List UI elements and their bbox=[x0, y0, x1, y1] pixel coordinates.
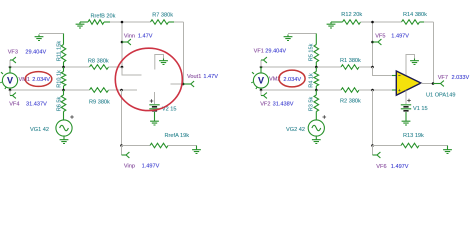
node U1 inverting input junction bbox=[371, 66, 374, 69]
svg-text:1.47V: 1.47V bbox=[138, 34, 153, 40]
ground (RrefA right) bbox=[196, 146, 198, 148]
node voltmeter top junction bbox=[9, 66, 12, 69]
wire RrefA row right bbox=[168, 145, 197, 147]
svg-text:Vout1: Vout1 bbox=[187, 74, 201, 80]
ground (op-amp V+) bbox=[410, 59, 419, 65]
node RrefA junction bbox=[120, 144, 123, 147]
wire top rail to R7 bbox=[104, 21, 110, 23]
svg-text:29.404V: 29.404V bbox=[25, 49, 46, 55]
svg-text:R4 1k: R4 1k bbox=[308, 73, 314, 88]
resistor R13 19k bbox=[401, 143, 419, 148]
svg-text:R2 380k: R2 380k bbox=[340, 99, 361, 105]
svg-text:1.497V: 1.497V bbox=[142, 163, 160, 169]
svg-text:1.47V: 1.47V bbox=[203, 74, 218, 80]
wire top rail to R14 bbox=[361, 21, 402, 23]
node R5/R4/R1 junction bbox=[315, 66, 318, 69]
svg-text:VG1 42: VG1 42 bbox=[30, 127, 49, 133]
wire op-amp output bbox=[421, 83, 433, 85]
svg-text:VF1: VF1 bbox=[254, 48, 264, 54]
resistor R2 380k bbox=[341, 88, 359, 93]
resistor R5 15k bbox=[315, 34, 317, 45]
resistor RrefA 19k bbox=[150, 143, 168, 148]
resistor R14 380k bbox=[402, 20, 420, 25]
wire feedback vertical bbox=[433, 22, 435, 84]
svg-text:1.497V: 1.497V bbox=[391, 34, 409, 40]
node U1 non-inverting input junction bbox=[371, 89, 374, 92]
svg-text:VM1: VM1 bbox=[19, 77, 31, 83]
node voltmeter bottom junction bbox=[9, 89, 12, 92]
node inverting input junction bbox=[121, 66, 124, 69]
wire rail1 left bbox=[261, 66, 341, 68]
probe Vinn bbox=[121, 41, 124, 44]
wire R13 row left bbox=[373, 145, 402, 147]
svg-text:2.033V: 2.033V bbox=[452, 75, 470, 81]
resistor R1 380k bbox=[341, 65, 359, 70]
wire feedback vertical bbox=[183, 22, 185, 84]
wire rail2 right bbox=[359, 89, 373, 91]
svg-text:V: V bbox=[7, 76, 13, 86]
wire ghost op-amp plus stub bbox=[122, 89, 138, 91]
wire VF5 vertical bbox=[372, 22, 374, 67]
ground (R13 right) bbox=[447, 146, 449, 148]
resistor R4 1k bbox=[314, 72, 319, 87]
svg-text:R1 380k: R1 380k bbox=[340, 58, 361, 64]
wire RrefA row left bbox=[122, 145, 151, 147]
ground (VG2) bbox=[312, 138, 321, 144]
ground (ghost op-amp V+) bbox=[159, 59, 168, 65]
svg-text:R9 380k: R9 380k bbox=[89, 100, 110, 106]
wire R13 row right bbox=[419, 145, 448, 147]
svg-text:R13 19k: R13 19k bbox=[403, 133, 424, 139]
wire op-amp minus input step bbox=[373, 67, 393, 76]
svg-text:R10 1k: R10 1k bbox=[57, 70, 63, 88]
wire ghost op-amp V+ bracket bbox=[155, 55, 164, 70]
node non-inverting input junction bbox=[120, 89, 123, 92]
probe VF3 bbox=[9, 60, 11, 67]
wire ghost op-amp V- stub bbox=[154, 92, 156, 104]
node R4/R3/R2 junction bbox=[315, 89, 318, 92]
node R10/R6/R9 junction bbox=[62, 89, 65, 92]
highlight ellipse (VM2 reading) bbox=[279, 70, 305, 87]
ground (R5 top wire) bbox=[284, 35, 293, 41]
svg-text:R7 380k: R7 380k bbox=[152, 12, 173, 18]
svg-text:VF5: VF5 bbox=[375, 34, 385, 40]
svg-text:R3 5k: R3 5k bbox=[308, 96, 314, 111]
probe VF6 bbox=[372, 146, 374, 156]
svg-text:31.438V: 31.438V bbox=[273, 101, 294, 107]
svg-text:Vinn: Vinn bbox=[124, 34, 135, 40]
svg-text:Vinp: Vinp bbox=[124, 163, 135, 169]
node VM2 top junction bbox=[260, 66, 263, 69]
wire op-amp V+ bracket bbox=[406, 55, 415, 76]
resistor R12 20k bbox=[343, 20, 361, 25]
svg-text:VF3: VF3 bbox=[8, 49, 18, 55]
ground (VG1) bbox=[60, 138, 69, 144]
svg-text:RrefA 19k: RrefA 19k bbox=[165, 133, 190, 139]
resistor R9 380k bbox=[90, 88, 109, 93]
svg-text:31.437V: 31.437V bbox=[26, 102, 47, 108]
ground (RrefB left) bbox=[76, 22, 85, 28]
ground (R12 left) bbox=[327, 22, 336, 28]
node VF7 bbox=[432, 82, 435, 85]
svg-text:R11 15k: R11 15k bbox=[57, 41, 63, 62]
svg-text:VF7: VF7 bbox=[438, 75, 448, 81]
node Vout1 bbox=[182, 83, 185, 86]
wire bbox=[39, 33, 64, 35]
wire inverting column down bbox=[121, 90, 123, 146]
probe VF5 bbox=[371, 41, 374, 44]
wire op-amp V- stub bbox=[405, 91, 407, 105]
svg-text:2.034V: 2.034V bbox=[32, 77, 50, 83]
svg-text:V1 15: V1 15 bbox=[413, 106, 428, 112]
svg-text:RrefB 20k: RrefB 20k bbox=[91, 14, 116, 20]
source VG2 bbox=[315, 112, 317, 120]
op-amp U1 OPA149 bbox=[396, 71, 421, 95]
svg-text:R6 5k: R6 5k bbox=[57, 96, 63, 111]
svg-text:VF4: VF4 bbox=[9, 102, 19, 108]
node R11/R10/R8 junction bbox=[62, 66, 65, 69]
svg-text:VG2 42: VG2 42 bbox=[286, 127, 305, 133]
ground (V2) bbox=[150, 119, 159, 125]
wire R7 to feedback corner bbox=[169, 21, 175, 23]
resistor R11 15k bbox=[63, 34, 65, 45]
wire Vinn vertical bbox=[121, 22, 123, 67]
node RrefB/R7/Vinn junction bbox=[121, 21, 124, 24]
wire rail1 left bbox=[10, 66, 90, 68]
resistor RrefB 20k bbox=[88, 20, 104, 25]
ground (R11 top wire) bbox=[35, 35, 44, 41]
svg-text:29.404V: 29.404V bbox=[265, 48, 286, 54]
svg-text:VF2: VF2 bbox=[260, 101, 270, 107]
node R13 junction bbox=[371, 144, 374, 147]
resistor R7 380k bbox=[151, 20, 169, 25]
node VM2 bottom junction bbox=[260, 89, 263, 92]
wire rail2 left bbox=[261, 89, 341, 91]
wire rail1 right bbox=[359, 66, 373, 68]
wire rail2 left bbox=[10, 89, 90, 91]
ground (V1) bbox=[402, 119, 411, 125]
wire bbox=[80, 21, 88, 23]
svg-text:R5 15k: R5 15k bbox=[308, 43, 314, 61]
svg-text:R8 380k: R8 380k bbox=[88, 58, 109, 64]
probe Vinp bbox=[121, 146, 123, 156]
svg-text:U1 OPA149: U1 OPA149 bbox=[426, 93, 455, 99]
highlight ellipse (VM1 reading) bbox=[25, 72, 52, 87]
battery V2 15 bbox=[149, 105, 159, 109]
svg-text:VF6: VF6 bbox=[376, 164, 386, 170]
resistor R3 5k bbox=[314, 95, 319, 112]
svg-text:R14 380k: R14 380k bbox=[403, 12, 427, 18]
svg-text:2.034V: 2.034V bbox=[283, 77, 301, 83]
svg-text:R12 20k: R12 20k bbox=[341, 12, 362, 18]
wire non-inverting column down bbox=[372, 90, 374, 146]
highlight ellipse (missing op-amp) bbox=[115, 48, 182, 110]
probe VF2 bbox=[260, 90, 262, 96]
probe VF7 bbox=[433, 83, 441, 85]
wire rail2 right bbox=[109, 89, 122, 91]
wire rail1 right bbox=[109, 66, 123, 68]
wire ghost op-amp minus input step bbox=[122, 67, 142, 75]
probe VF4 bbox=[9, 90, 11, 96]
svg-text:V: V bbox=[258, 76, 264, 86]
wire op-amp plus input bbox=[373, 89, 393, 91]
wire R14 to feedback corner bbox=[420, 21, 425, 23]
resistor R8 380k bbox=[90, 65, 109, 70]
probe VF1 bbox=[260, 60, 262, 67]
wire bbox=[288, 33, 316, 35]
resistor R6 5k bbox=[61, 95, 66, 112]
wire bbox=[331, 21, 343, 23]
wire ghost op-amp output stub bbox=[171, 83, 184, 85]
node R12/R14/VF5 junction bbox=[371, 21, 374, 24]
resistor R10 1k bbox=[61, 72, 66, 87]
voltmeter VM2 bbox=[260, 67, 262, 73]
battery V1 15 bbox=[401, 105, 411, 109]
svg-text:1.497V: 1.497V bbox=[391, 164, 409, 170]
source VG1 bbox=[63, 112, 65, 120]
voltmeter VM1 bbox=[9, 67, 11, 73]
probe Vout1 bbox=[183, 83, 191, 85]
